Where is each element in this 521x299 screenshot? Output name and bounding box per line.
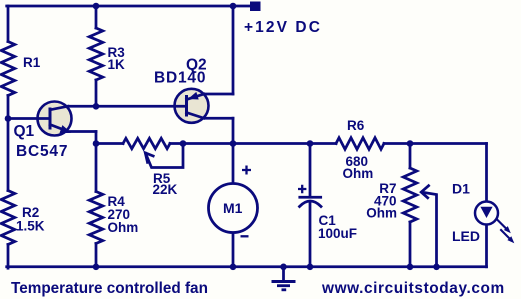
svg-text:+12V DC: +12V DC [244, 19, 322, 36]
svg-text:Ohm: Ohm [108, 220, 139, 235]
svg-text:Ohm: Ohm [343, 166, 374, 181]
svg-text:BD140: BD140 [154, 70, 206, 87]
svg-text:Temperature controlled fan: Temperature controlled fan [11, 280, 208, 297]
svg-text:R1: R1 [23, 55, 41, 70]
svg-text:22K: 22K [153, 182, 178, 197]
svg-text:BC547: BC547 [16, 143, 68, 160]
svg-text:1K: 1K [108, 57, 126, 72]
svg-text:Q1: Q1 [14, 123, 35, 140]
svg-text:M1: M1 [223, 200, 243, 216]
svg-text:1.5K: 1.5K [16, 219, 45, 234]
svg-text:R6: R6 [347, 118, 365, 133]
svg-text:LED: LED [452, 228, 480, 244]
svg-text:D1: D1 [452, 180, 470, 196]
svg-text:Ohm: Ohm [366, 206, 397, 221]
svg-text:www.circuitstoday.com: www.circuitstoday.com [321, 280, 505, 297]
svg-text:100uF: 100uF [318, 226, 357, 241]
